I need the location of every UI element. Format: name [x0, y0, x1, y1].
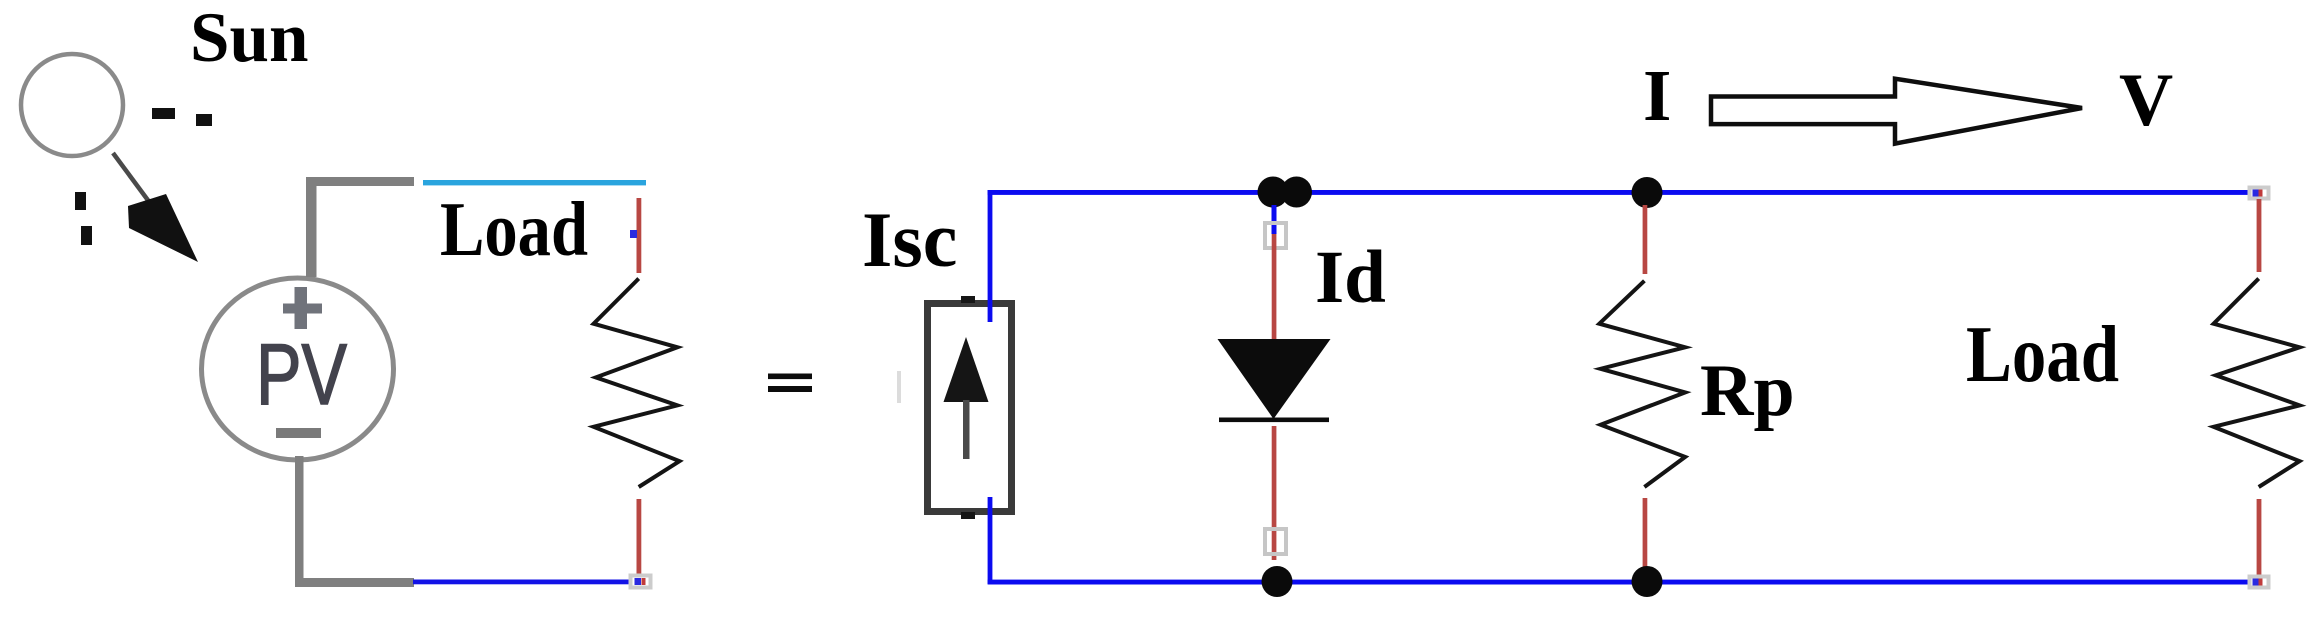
sun ray dash 2 — [196, 114, 212, 126]
diode bottom terminal square — [1265, 529, 1286, 554]
sun arrow shaft — [113, 153, 150, 203]
svg-text:Load: Load — [1966, 311, 2119, 399]
plus sign — [283, 287, 322, 329]
left load resistor top lead (red) — [637, 198, 642, 273]
sun ray dash 3 — [75, 192, 86, 210]
svg-text:Isc: Isc — [862, 196, 957, 283]
diode D1 triangle — [1218, 339, 1331, 419]
diode top lead (red) — [1272, 234, 1277, 351]
wire bottom blue segment — [413, 580, 632, 585]
current source arrow stem — [963, 400, 970, 459]
current source arrow head — [944, 337, 989, 402]
diode bottom lead (red) — [1272, 426, 1277, 560]
equals sign — [768, 374, 812, 393]
diode top blue stub — [1272, 205, 1277, 234]
sun ray dash 4 — [81, 226, 92, 245]
current source Isc box — [928, 304, 1012, 512]
terminal handle top-right resistor — [2250, 188, 2269, 199]
wire Isc to bottom rail (blue) — [988, 497, 993, 584]
wire Isc to top rail (blue) — [988, 190, 993, 322]
svg-text:PV: PV — [256, 327, 347, 423]
bottom rail wire (blue) — [988, 580, 2251, 585]
right load resistor top lead (red) — [2257, 199, 2262, 272]
sun circle — [21, 54, 123, 156]
node dots top of diode branch — [1258, 177, 1289, 208]
wire PV top horizontal (gray) — [306, 177, 414, 186]
PV source circle — [202, 278, 394, 460]
diode top terminal square — [1265, 223, 1286, 248]
node dot bottom of Rp branch — [1632, 566, 1663, 597]
terminal handle bottom-right resistor — [2250, 577, 2269, 588]
box bottom terminal tick — [961, 512, 975, 519]
right load resistor bottom lead (red) — [2257, 499, 2262, 576]
wire top cyan segment — [423, 180, 646, 185]
node dot bottom of diode branch — [1262, 566, 1293, 597]
minus sign — [276, 428, 321, 438]
wire bottom horizontal (gray) — [295, 578, 414, 587]
wire PV top vertical (gray) — [306, 177, 317, 277]
resistor Rp zigzag — [1599, 281, 1685, 487]
box top terminal tick — [961, 296, 975, 303]
current direction outline arrow — [1711, 79, 2082, 144]
left load resistor zigzag — [594, 279, 680, 487]
right load resistor zigzag — [2214, 279, 2300, 487]
faint mark left of box — [897, 371, 901, 403]
terminal handle bottom-left resistor — [631, 576, 651, 588]
wire PV bottom vertical (gray) — [295, 456, 304, 587]
tiny blue mark — [630, 230, 637, 238]
sun arrowhead — [128, 194, 198, 262]
sun ray dash 1 — [152, 108, 175, 119]
node dot top of Rp branch — [1632, 177, 1663, 208]
top rail wire (blue) — [988, 190, 2251, 195]
svg-text:Id: Id — [1315, 236, 1386, 319]
svg-text:Sun: Sun — [190, 0, 308, 77]
svg-text:Load: Load — [440, 186, 588, 272]
svg-text:Rp: Rp — [1700, 350, 1795, 432]
diode D1 cathode bar — [1219, 418, 1329, 423]
Rp bottom lead (red) — [1643, 498, 1648, 568]
left load resistor bottom lead (red) — [637, 499, 642, 575]
svg-text:V: V — [2119, 59, 2173, 142]
svg-text:I: I — [1643, 55, 1671, 136]
Rp top lead (red) — [1643, 205, 1648, 274]
